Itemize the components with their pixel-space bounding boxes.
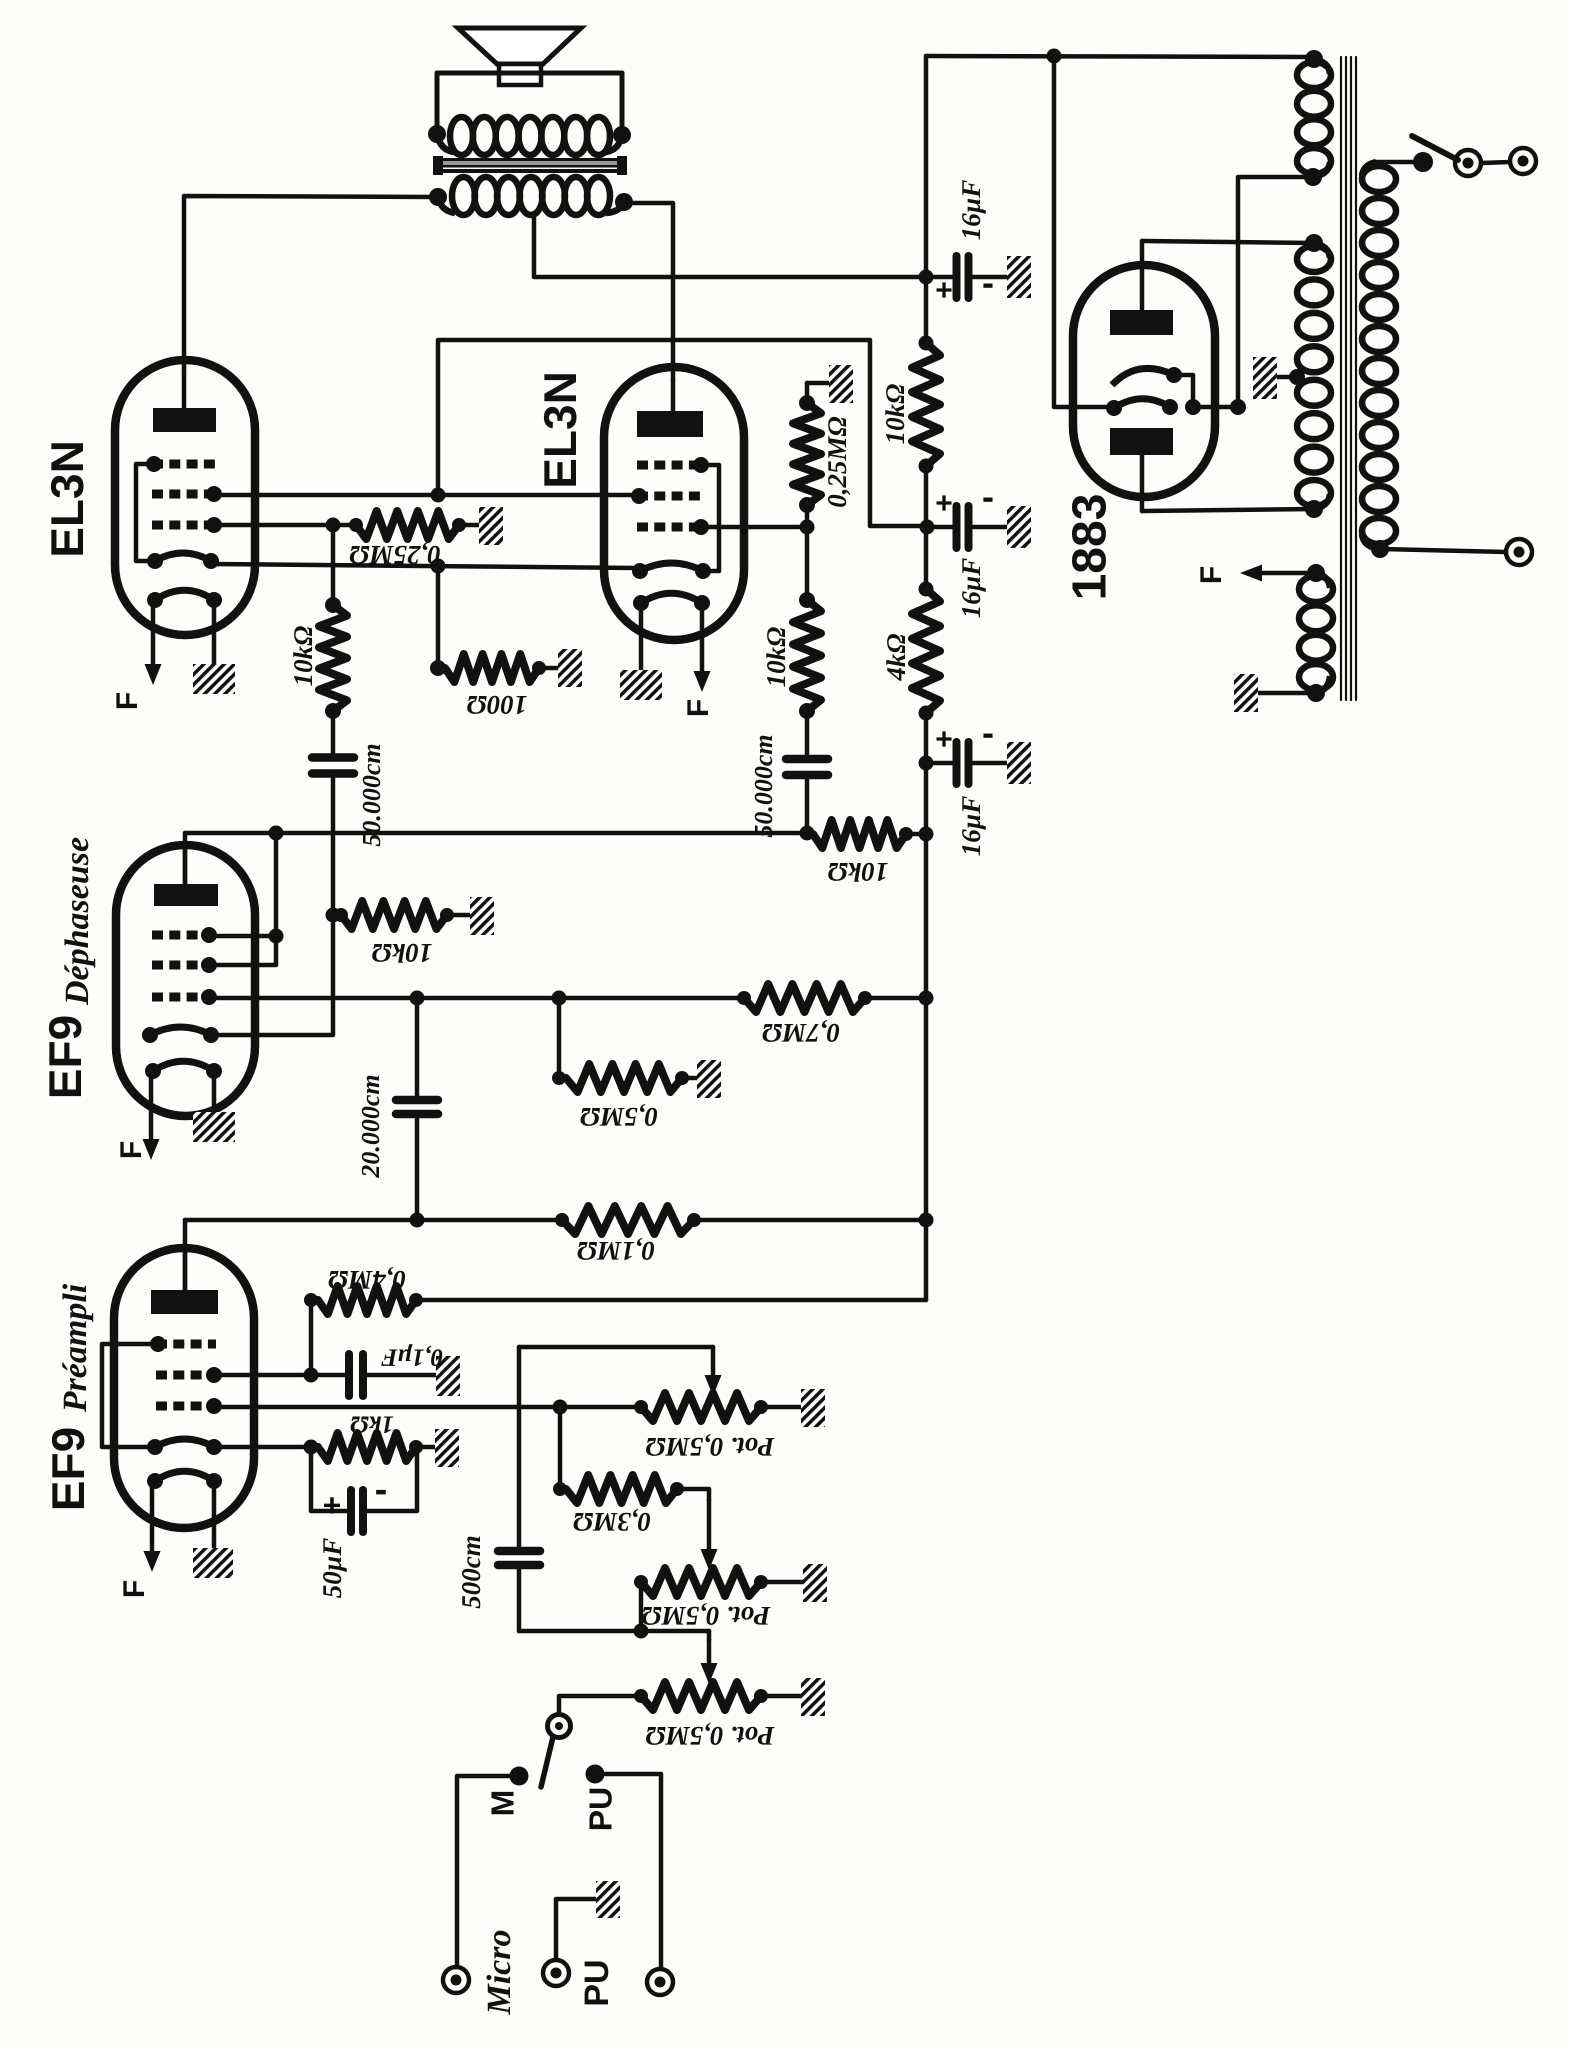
tube V4 heater ground lead [212, 1481, 217, 1550]
svg-text:F: F [118, 1580, 151, 1598]
wire HT bus vertical [924, 56, 929, 343]
wire mains terminals [1481, 162, 1510, 163]
output transformer T2 primary (voice-coil side) [428, 125, 446, 143]
svg-text:16µF: 16µF [956, 558, 986, 619]
svg-text:+: + [935, 723, 953, 756]
resistor 10k anode load V3 [813, 820, 906, 848]
tube V4 grid g3 [156, 1340, 216, 1349]
ground pot1 [801, 1389, 825, 1427]
ground 0.5M [697, 1060, 721, 1098]
tube V5 anode 2 [1110, 428, 1173, 455]
wire V4 cathode line [214, 1445, 318, 1450]
wire heater winding to ground [1258, 691, 1316, 696]
wire T2 secondary right to V2 anode [624, 203, 673, 380]
tube V1 heater ground lead [212, 600, 217, 666]
tube V4 cathode [155, 1439, 214, 1447]
svg-text:10kΩ: 10kΩ [372, 938, 433, 968]
svg-text:0,3MΩ: 0,3MΩ [573, 1507, 651, 1537]
wire V2 grid g1 line [703, 525, 807, 530]
svg-text:EF9: EF9 [42, 1427, 94, 1511]
tube V1 heater F lead [151, 600, 156, 671]
wire 0.3M to pot2 wiper [677, 1489, 709, 1500]
wire T2 center tap to HT rail [534, 213, 924, 277]
svg-text:Pot. 0,5MΩ: Pot. 0,5MΩ [646, 1432, 776, 1462]
speaker LS1 [458, 28, 581, 64]
svg-text:0,25MΩ: 0,25MΩ [349, 540, 440, 570]
svg-text:10kΩ: 10kΩ [288, 626, 318, 687]
potentiometer Pot 0.5M #2 [641, 1568, 761, 1596]
wire 10k to cap [331, 711, 336, 757]
ground pot3 [801, 1678, 825, 1716]
T1 HT center tap [1289, 369, 1305, 385]
tube V4 heater F lead [150, 1481, 155, 1558]
tube V2 anode [637, 411, 703, 437]
wire pot2 left to line [639, 1582, 644, 1631]
wire screen feed elbow [438, 340, 924, 526]
ground PU input [596, 1881, 620, 1918]
tube V1 grid g3 [152, 460, 216, 469]
resistor 4k ohm dropper [919, 582, 934, 597]
wire V3 anode line [183, 833, 188, 884]
svg-text:500cm: 500cm [456, 1535, 486, 1609]
power transformer T1 core [1340, 57, 1342, 700]
capacitor 20000cm [415, 998, 420, 1096]
wire pot1 wiper to 500cm [519, 1345, 713, 1350]
T1 heater winding F [1307, 564, 1325, 582]
wire V5 anode1 to HT winding [1142, 241, 1314, 243]
wire V1 grid g1 line [211, 523, 333, 528]
tube V2 grid g2 [637, 492, 703, 501]
resistor 10k stopper V1 [325, 597, 341, 613]
tube V5 anode 1 [1110, 310, 1173, 335]
wire +HT top line [926, 56, 1314, 57]
node HT junction 16uF-1 [919, 270, 934, 285]
svg-text:-: - [375, 1469, 388, 1511]
resistor 0.5M to ground [566, 1064, 682, 1092]
wire V5 filament right to winding [1193, 405, 1238, 410]
resistor 10k stopper V2 [799, 592, 815, 608]
ground 0.25M V2 [829, 365, 853, 403]
tube V5 filament [1112, 368, 1174, 385]
wire M to Micro terminal [457, 1776, 519, 1966]
svg-text:EF9: EF9 [39, 1015, 91, 1099]
svg-text:Pot. 0,5MΩ: Pot. 0,5MΩ [642, 1601, 772, 1631]
terminal output bottom [1506, 539, 1532, 565]
tube V4 heater [155, 1471, 214, 1481]
wire primary bottom to output terminal [1380, 549, 1506, 552]
ground 100 ohm [558, 649, 582, 687]
wire 500cm line [519, 1629, 709, 1634]
wire 0.5M branch [557, 998, 562, 1078]
svg-text:+: + [935, 487, 953, 520]
node junction 16uF-3 [919, 756, 934, 771]
T1 HT secondary winding [1305, 234, 1323, 252]
svg-text:+: + [323, 1487, 342, 1523]
svg-text:Micro: Micro [481, 1930, 518, 2016]
svg-text:1883: 1883 [1064, 494, 1117, 601]
tube V3 cathode [150, 1027, 211, 1035]
tube V2 heater ground lead [639, 603, 644, 672]
wire V3 g2-g3 strap to anode [269, 826, 284, 841]
tube V3 grid g3 [152, 931, 211, 940]
svg-text:+: + [935, 274, 953, 307]
svg-text:-: - [982, 476, 994, 517]
wire heater winding F arrow [1256, 571, 1316, 576]
tube V4 EF9 envelope [114, 1248, 254, 1528]
wire PU to terminal [595, 1774, 661, 1968]
svg-text:0,7MΩ: 0,7MΩ [762, 1018, 840, 1048]
ground V3 heater [193, 1112, 235, 1142]
tube V1 grid g1 [152, 521, 216, 530]
terminal PU right [647, 1969, 673, 1995]
wire V2 grid to stopper [805, 527, 810, 600]
wire screens g2 line V1-V2 [211, 493, 637, 498]
ground for 16uF #2 [1007, 506, 1031, 548]
ground pot2 [803, 1564, 827, 1602]
svg-text:F: F [111, 692, 144, 710]
potentiometer Pot 0.5M #3 [641, 1682, 761, 1710]
svg-text:16µF: 16µF [956, 796, 986, 857]
ground for 16uF #1 [1007, 256, 1031, 298]
wire V4 anode to 0.1M line [183, 1220, 188, 1290]
wire 0.4M to bus [416, 1298, 926, 1303]
switch S2 mains lever [1412, 136, 1458, 160]
capacitor 16uF filter #2 [926, 525, 953, 530]
tube V2 EL3N envelope [604, 367, 744, 640]
tube V2 heater F lead [700, 603, 705, 678]
svg-text:10kΩ: 10kΩ [828, 857, 889, 887]
ground V4 heater [193, 1548, 233, 1578]
svg-text:10kΩ: 10kΩ [880, 384, 910, 445]
resistor 0.25M grid leak V1 [333, 523, 356, 528]
tube V2 grid g3 [637, 461, 703, 470]
resistor 10k cathode load V3 [326, 908, 341, 923]
tube V3 grid g2 [152, 961, 211, 970]
resistor 10k ohm HT dropper [919, 336, 934, 351]
svg-text:0,4MΩ: 0,4MΩ [328, 1265, 406, 1295]
wire 10k to cap #2 [805, 711, 810, 758]
svg-text:Déphaseuse: Déphaseuse [59, 837, 96, 1006]
tube V1 g3-cathode strap [136, 464, 155, 561]
resistor 100 ohm cathode bias [436, 566, 441, 668]
resistor 0.4M screen feed [309, 1300, 314, 1375]
terminal mains 1 [1455, 150, 1481, 176]
terminal mains 2 [1510, 148, 1536, 174]
wire V5 anode2 to HT winding [1142, 509, 1314, 511]
tube V3 heater ground lead [212, 1071, 217, 1114]
tube V3 heater F lead [149, 1071, 154, 1146]
ground V1 heater [193, 664, 235, 694]
wire cathodes line V1-V2 [211, 564, 640, 568]
svg-text:10kΩ: 10kΩ [761, 627, 791, 688]
svg-text:1kΩ: 1kΩ [350, 1410, 394, 1437]
ground 0.1uF [436, 1356, 460, 1396]
svg-text:0,5MΩ: 0,5MΩ [580, 1102, 658, 1132]
svg-text:16µF: 16µF [956, 180, 986, 241]
ground 1k [435, 1429, 459, 1467]
capacitor 500cm [498, 1547, 540, 1556]
tube V3 anode [154, 884, 218, 906]
ground for 16uF #3 [1007, 742, 1031, 784]
wire PU ground [556, 1899, 596, 1959]
svg-text:50µF: 50µF [317, 1538, 347, 1599]
svg-text:EL3N: EL3N [41, 440, 93, 558]
svg-text:PU: PU [578, 1959, 616, 2006]
wire pot3 left to switch [559, 1696, 641, 1714]
wire coupling cap 2 to anode line [805, 776, 810, 834]
svg-text:100Ω: 100Ω [467, 690, 528, 720]
svg-text:PU: PU [582, 1787, 618, 1831]
svg-text:Pot. 0,5MΩ: Pot. 0,5MΩ [646, 1721, 776, 1751]
switch S1 common [548, 1715, 571, 1738]
svg-text:F: F [115, 1141, 148, 1159]
wire V5 filament to +HT [1054, 56, 1114, 407]
tube V4 grid g1 [156, 1402, 216, 1411]
wire T1 filament winding to V5 [1238, 177, 1313, 407]
switch S1 contact M [510, 1767, 529, 1786]
tube V1 EL3N envelope [115, 360, 255, 635]
resistor 0.25M grid leak V2 [805, 383, 810, 403]
terminal PU ground side [543, 1960, 569, 1986]
svg-text:0,1MΩ: 0,1MΩ [577, 1236, 655, 1266]
terminal Micro [443, 1967, 469, 1993]
svg-text:20.000cm: 20.000cm [356, 1074, 385, 1178]
svg-text:-: - [982, 712, 994, 753]
tube V2 cathode [640, 563, 703, 571]
tube V4 anode [151, 1290, 218, 1314]
ground HT center tap [1253, 357, 1277, 399]
svg-text:4kΩ: 4kΩ [881, 633, 911, 681]
tube V2 grid g1 [637, 523, 703, 532]
T1 primary winding [1362, 162, 1376, 176]
ground heater winding [1234, 674, 1258, 712]
tube V3 grid g1 [152, 993, 211, 1002]
tube V1 cathode [155, 553, 211, 561]
resistor 0.7M feedback [744, 984, 865, 1012]
resistor 0.1M coupling [562, 1206, 694, 1234]
tube V5 1883 envelope [1073, 265, 1215, 497]
T1 rectifier filament winding [1305, 50, 1323, 68]
switch S1 contact PU [586, 1765, 605, 1784]
svg-text:50.000cm: 50.000cm [749, 734, 778, 837]
output transformer T2 secondary (plate winding) [429, 188, 447, 206]
wire line to pot3 wiper [707, 1631, 712, 1640]
wire V1 grid to coupling [331, 525, 336, 605]
tube V1 anode [153, 408, 216, 432]
tube V4 grid g2 [156, 1371, 216, 1380]
wire coupling cap to splitter cathode [211, 774, 333, 1035]
tube V1 heater [155, 590, 214, 600]
resistor 1k cathode bias [318, 1433, 416, 1461]
svg-text:F: F [682, 699, 715, 717]
output transformer T2 core [437, 158, 623, 162]
potentiometer Pot 0.5M #1 [641, 1393, 761, 1421]
ground V2 heater [620, 670, 662, 700]
tube V3 heater [153, 1061, 214, 1071]
svg-text:F: F [1195, 566, 1228, 584]
capacitor 50000cm coupling #1 [312, 753, 354, 762]
tube V1 grid g2 [152, 490, 216, 499]
svg-text:0,1µF: 0,1µF [381, 1343, 444, 1370]
capacitor 0.1uF screen decoupling [345, 1354, 353, 1396]
ground 0.25M V1 [479, 507, 503, 545]
capacitor 16uF filter #1 [926, 275, 953, 280]
tube V2 heater [641, 593, 702, 603]
svg-text:M: M [484, 1790, 520, 1817]
wire T2 secondary left to V1 anode [184, 196, 437, 370]
wire V4 grid line to pot1 [216, 1405, 641, 1410]
capacitor 50000cm coupling #2 [786, 755, 828, 764]
node junction screens [920, 520, 935, 535]
capacitor 16uF filter #3 [926, 761, 953, 766]
wire V4 g2 line [216, 1373, 346, 1378]
svg-text:EL3N: EL3N [534, 371, 586, 489]
resistor 0.3M [558, 1407, 563, 1489]
svg-text:-: - [982, 262, 994, 303]
wire V3 grid line [211, 996, 744, 1001]
tube V3 EF9 envelope [116, 845, 255, 1116]
tube V2 g3-cathode strap [703, 465, 719, 571]
svg-text:Préampli: Préampli [57, 1283, 94, 1413]
capacitor 50uF cathode bypass [311, 1447, 346, 1511]
ground 10k cathode load [470, 897, 494, 935]
tube V4 g3-cathode strap [102, 1344, 156, 1447]
wire mains switch [1376, 160, 1417, 165]
switch S1 lever [541, 1737, 553, 1787]
wire speaker frame [437, 71, 622, 76]
svg-text:0,25MΩ: 0,25MΩ [822, 416, 852, 507]
